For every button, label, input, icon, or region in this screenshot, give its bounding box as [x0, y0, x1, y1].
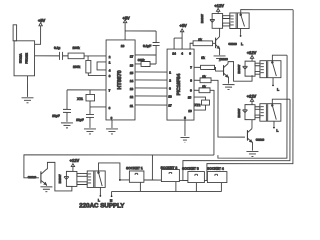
capacitor C1 0.1u — [54, 46, 63, 60]
svg-text:SOCKET 1: SOCKET 1 — [126, 166, 143, 170]
svg-text:XT1: XT1 — [77, 97, 83, 101]
svg-text:SOCKET 3: SOCKET 3 — [182, 167, 199, 171]
ground (Q1) — [214, 56, 226, 61]
ground (Q4) — [40, 187, 52, 192]
svg-text:3: 3 — [109, 74, 111, 78]
node N stub (AC neutral) — [119, 179, 121, 181]
IC U1 HT8870 — [106, 40, 135, 120]
socket SOCKET1 — [126, 166, 144, 182]
svg-text:220AC SUPPLY: 220AC SUPPLY — [79, 202, 125, 209]
svg-text:L: L — [277, 88, 279, 92]
resistor R5 1k (channel 3) — [200, 75, 211, 83]
wire right rail 1 (from RL1) — [207, 10, 293, 181]
svg-text:L: L — [276, 129, 278, 133]
wire +5V branch rail — [125, 30, 156, 32]
+12V supply symbol (relay RL2) — [247, 50, 257, 58]
svg-text:15: 15 — [130, 71, 134, 75]
svg-text:3: 3 — [169, 87, 171, 91]
svg-text:IN4007: IN4007 — [200, 14, 204, 23]
svg-text:8: 8 — [190, 79, 192, 83]
wire Q1 emitter to ground — [219, 49, 221, 55]
wire +12V to RL2 coil — [251, 58, 253, 61]
node N stub from neutral chain — [110, 191, 113, 202]
wire R1 to HT8870 pin2 — [84, 55, 106, 57]
wire C2 to pin17 — [135, 54, 156, 56]
socket SOCKET2 — [161, 166, 180, 182]
wire neutral chain (socket bottoms) — [112, 181, 222, 191]
svg-text:17: 17 — [168, 104, 172, 108]
svg-text:20pF: 20pF — [52, 114, 59, 118]
svg-text:17: 17 — [130, 54, 134, 58]
label 220AC SUPPLY — [79, 202, 125, 209]
svg-text:+12V: +12V — [247, 94, 257, 99]
transistor Q2 CN013 — [219, 57, 228, 77]
svg-text:14: 14 — [172, 52, 176, 56]
wire drop to socket2 — [152, 179, 161, 181]
wire RL1 common to right rail — [241, 10, 293, 15]
svg-text:12: 12 — [130, 95, 134, 99]
+5V supply symbol (PIC) — [179, 23, 187, 32]
wire R7 to pin16 and C2 — [135, 63, 156, 65]
svg-text:NOKIA: NOKIA — [19, 53, 23, 64]
wire Q3 collector to RL3 coil — [251, 120, 253, 129]
svg-text:0.1µ: 0.1µ — [54, 46, 60, 50]
+12V supply symbol (relay RL4) — [70, 158, 80, 167]
wire right rail 3 (from RL3) — [183, 99, 290, 181]
socket SOCKET3 — [182, 167, 204, 183]
wire R2 to HT8870 pin3 — [88, 73, 106, 76]
svg-text:PIC16F84: PIC16F84 — [176, 73, 182, 95]
relay RL1 coil — [212, 14, 230, 29]
svg-text:7: 7 — [190, 66, 192, 70]
diode D2 IN4007 — [237, 64, 247, 73]
wire +12V to RL3 coil — [251, 102, 253, 105]
wire PIC pin6 to R3 — [190, 43, 193, 49]
node L stub (RL3) — [273, 121, 278, 133]
wire RL4 common to socket 1 — [98, 163, 129, 180]
wire R3 to Q1 base — [213, 42, 216, 44]
wire +5V to phone box — [35, 26, 41, 44]
svg-text:7: 7 — [109, 88, 111, 92]
wire PIC pin7 to R4 — [194, 66, 201, 68]
nokia phone box — [14, 41, 35, 76]
svg-text:SOCKET 4: SOCKET 4 — [207, 167, 224, 171]
svg-text:+12V: +12V — [214, 3, 224, 8]
svg-text:IN4007: IN4007 — [237, 108, 241, 117]
svg-text:9: 9 — [190, 89, 192, 93]
ground (Q3) — [246, 151, 258, 156]
svg-text:100k: 100k — [73, 46, 80, 50]
wire loop HT8870 pins 1-4 — [97, 62, 106, 70]
wire RL3 common to right rail — [272, 99, 290, 105]
svg-text:8: 8 — [109, 106, 111, 110]
svg-text:2: 2 — [109, 55, 111, 59]
wire RL1 coil to Q1 collector — [219, 28, 221, 36]
svg-text:CN013: CN013 — [219, 57, 228, 61]
svg-text:0.1µF: 0.1µF — [143, 44, 151, 48]
+5V supply symbol (phone) — [38, 18, 46, 26]
svg-text:IN4007: IN4007 — [237, 64, 241, 73]
svg-text:PHONE: PHONE — [25, 53, 29, 64]
svg-text:CN013: CN013 — [228, 42, 237, 46]
svg-text:+5V: +5V — [38, 18, 46, 23]
wire phone to ground — [27, 76, 29, 97]
wire R4 to Q2 base — [215, 67, 224, 71]
wire RL2 common to right rail — [272, 55, 287, 62]
ground (PIC) — [180, 138, 189, 143]
wire +12V to RL1 coil — [217, 12, 219, 14]
diode D1 IN4007 — [200, 14, 215, 23]
svg-text:16: 16 — [130, 63, 134, 67]
wire bus HT8870 to PIC (5 lines) — [135, 72, 167, 105]
svg-text:20pF: 20pF — [76, 118, 83, 122]
wire +12V to RL4 coil — [72, 167, 74, 172]
IC U2 PIC16F84 — [167, 49, 194, 120]
transistor Q3 CN013 — [247, 129, 264, 143]
wire C1 to R1 — [63, 55, 68, 57]
resistor R3 1k (channel 1) — [193, 38, 213, 46]
node L stub (RL4 / AC live) — [98, 187, 101, 202]
ground (C4) — [84, 129, 96, 134]
resistor R4 1k (channel 2) — [201, 56, 215, 70]
ground (Q2) — [223, 85, 235, 90]
resistor R7 300k — [138, 58, 150, 67]
ground (HT8870) — [106, 129, 118, 134]
transistor Q1 CN013 — [216, 37, 238, 49]
node L stub (RL1) — [240, 28, 243, 46]
wire socket1 to socket2 link — [144, 155, 153, 180]
wire HT8870 pin7 row — [67, 89, 106, 91]
svg-text:+5V: +5V — [179, 23, 187, 28]
svg-text:1k: 1k — [201, 56, 205, 60]
capacitor C4 20pF — [76, 107, 94, 128]
+12V supply symbol (relay RL3) — [247, 94, 257, 102]
svg-text:+12V: +12V — [70, 158, 80, 163]
svg-text:4: 4 — [109, 68, 111, 72]
svg-text:CN013: CN013 — [28, 175, 37, 179]
svg-text:14: 14 — [130, 79, 134, 83]
svg-text:1: 1 — [109, 60, 111, 64]
wire Q3 emitter to ground — [251, 142, 254, 151]
wire XT1 to HT8870 pin8 — [90, 106, 106, 108]
relay RL3 contact — [260, 104, 281, 122]
svg-text:18: 18 — [168, 95, 172, 99]
node junction at R2 top — [87, 56, 89, 60]
diode D3 IN4007 — [237, 108, 247, 117]
wire Q4 emitter to ground — [45, 185, 47, 186]
wire Q2 collector to RL2 coil — [228, 62, 252, 82]
svg-text:L: L — [241, 42, 243, 46]
resistor R6 1k (channel 4) — [199, 85, 210, 93]
svg-text:100k: 100k — [73, 65, 80, 69]
wire Q2 emitter to ground — [227, 77, 230, 84]
wire R5 to Q3 base (long drop) — [211, 80, 245, 137]
relay RL4 coil — [66, 171, 87, 186]
svg-text:4: 4 — [181, 52, 183, 56]
resistor R1 100k — [68, 46, 84, 59]
relay RL2 coil — [245, 61, 260, 76]
svg-text:1: 1 — [169, 71, 171, 75]
svg-text:2: 2 — [169, 79, 171, 83]
capacitor C2 0.1uF steering — [143, 31, 160, 64]
ground (phone) — [22, 98, 34, 103]
diode D4 IN4007 — [58, 174, 69, 183]
+5V supply symbol (HT8870) — [122, 15, 130, 22]
wire PIC pin5 to ground — [184, 120, 186, 136]
svg-text:5: 5 — [184, 116, 186, 120]
wire HT8870 pin9 to ground — [111, 120, 113, 128]
svg-text:16: 16 — [188, 109, 192, 113]
capacitor C3 20pF — [52, 90, 71, 122]
node L stub (RL2) — [272, 78, 279, 92]
crystal XT1 — [77, 90, 94, 107]
svg-text:+12V: +12V — [247, 50, 257, 55]
transistor Q4 CN013 — [28, 169, 47, 185]
svg-text:6: 6 — [189, 52, 191, 56]
wire Q4 base rail (long) — [24, 155, 214, 178]
resistor R2 100k — [73, 60, 91, 73]
relay RL1 contact — [230, 13, 249, 29]
ground (C3) — [61, 123, 73, 128]
wire +5V to HT8870 pin18 — [124, 23, 126, 40]
svg-text:11: 11 — [130, 104, 134, 108]
wire socket3 to socket4 link — [179, 179, 207, 181]
svg-text:15: 15 — [188, 96, 192, 100]
nokia phone antenna — [13, 25, 17, 41]
wire PIC pin8 to R5 — [194, 79, 200, 81]
wire +5V to PIC pins 14,4 — [174, 32, 182, 49]
relay RL2 contact — [260, 61, 281, 78]
relay RL4 contact — [87, 171, 105, 188]
socket SOCKET4 — [207, 167, 227, 183]
wire phone audio out — [35, 55, 59, 57]
svg-text:18: 18 — [121, 44, 125, 48]
svg-text:13: 13 — [130, 87, 134, 91]
svg-text:XT2: XT2 — [195, 103, 201, 107]
svg-text:+5V: +5V — [123, 15, 131, 20]
svg-text:HT8870: HT8870 — [117, 70, 123, 89]
wire right rail 2 (from RL2) — [218, 55, 287, 158]
svg-text:CN013: CN013 — [256, 138, 265, 142]
crystal XT2 — [194, 97, 210, 110]
wire Q4 collector to RL4 coil — [47, 162, 72, 191]
svg-text:IN4007: IN4007 — [58, 174, 62, 183]
relay RL3 coil — [245, 105, 260, 120]
wire R6 to Q4 base rail — [210, 90, 214, 155]
svg-text:9: 9 — [111, 116, 113, 120]
wire PIC pin9 to R6 — [194, 89, 199, 91]
+12V supply symbol (relay RL1) — [214, 3, 224, 11]
